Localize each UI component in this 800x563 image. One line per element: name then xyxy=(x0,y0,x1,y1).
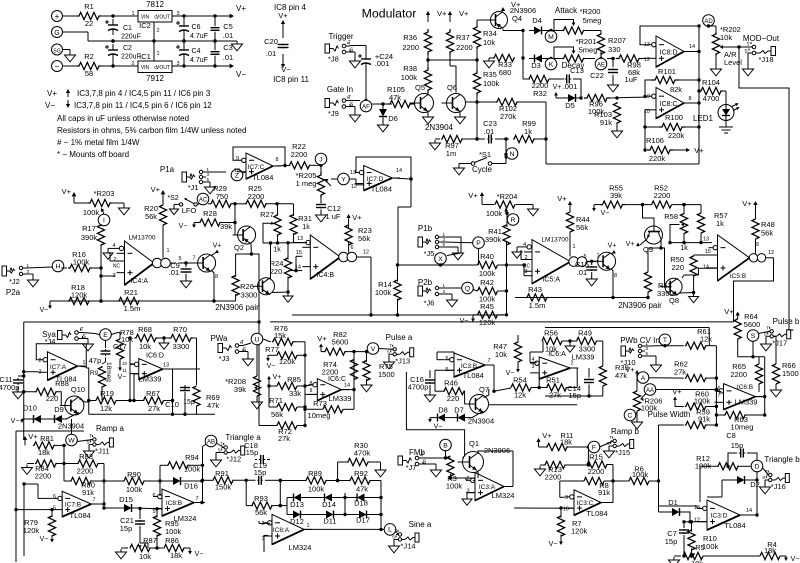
wire R13 R15 xyxy=(566,464,589,466)
svg-text:1k: 1k xyxy=(680,245,688,252)
wire AF to D6 xyxy=(372,102,392,105)
svg-text:V: V xyxy=(371,346,376,353)
svg-text:15: 15 xyxy=(296,250,302,256)
svg-text:R43: R43 xyxy=(528,285,542,294)
svg-text:*J16: *J16 xyxy=(771,482,786,491)
wire R36 node xyxy=(426,55,478,67)
wire Q7 emitter xyxy=(470,411,484,418)
svg-text:R73: R73 xyxy=(313,399,327,408)
wire AD to R202 xyxy=(709,26,717,32)
pot-jack J5 xyxy=(418,224,446,258)
V+ R204 xyxy=(468,191,494,205)
label 2N3906 pair right xyxy=(618,301,662,310)
svg-text:2200: 2200 xyxy=(730,370,747,379)
wire Q2 emitter xyxy=(236,244,253,277)
ground C22 xyxy=(608,75,619,92)
svg-text:U: U xyxy=(255,336,260,343)
svg-text:R92: R92 xyxy=(354,469,368,478)
resistor R31 xyxy=(290,214,312,235)
resistor R66 xyxy=(772,336,798,384)
svg-text:5600: 5600 xyxy=(744,320,761,329)
resistor R17 xyxy=(81,224,105,246)
wire R39 bottom xyxy=(545,386,603,396)
resistor R92 xyxy=(349,469,381,529)
resistor R96 xyxy=(584,94,610,116)
pot R5 xyxy=(683,543,705,563)
wire R88 to Q10 xyxy=(57,392,65,406)
svg-text:3300: 3300 xyxy=(241,291,258,300)
svg-text:* − Mounts off board: * − Mounts off board xyxy=(57,150,129,159)
resistor R51 xyxy=(546,376,566,400)
resistor R13 xyxy=(545,461,566,481)
resistor R68 xyxy=(135,325,158,351)
svg-text:390k: 390k xyxy=(485,235,502,244)
resistor R54 xyxy=(494,376,531,400)
svg-text:IC1: IC1 xyxy=(139,52,151,61)
svg-text:18k: 18k xyxy=(560,438,572,447)
svg-text:D18: D18 xyxy=(354,499,368,508)
svg-text:R71: R71 xyxy=(269,396,283,405)
resistor R4 xyxy=(760,540,780,560)
svg-text:1: 1 xyxy=(82,360,85,366)
svg-text:R38: R38 xyxy=(403,64,417,73)
wire R53 rail xyxy=(647,292,649,298)
svg-text:*J7: *J7 xyxy=(406,463,417,472)
svg-text:*R204: *R204 xyxy=(497,192,518,201)
svg-text:18k: 18k xyxy=(38,448,50,457)
V+ R203 xyxy=(62,187,89,203)
jack J8 xyxy=(325,41,354,64)
wire R59 right xyxy=(707,423,718,426)
label IC8 pin 11 xyxy=(273,75,309,84)
svg-text:R93: R93 xyxy=(254,494,268,503)
resistor R72 xyxy=(259,422,297,443)
svg-text:V−: V− xyxy=(11,418,20,425)
svg-text:12: 12 xyxy=(694,518,700,524)
ground J2 xyxy=(26,274,39,287)
svg-text:R86: R86 xyxy=(165,536,179,545)
svg-text:V−: V− xyxy=(195,551,204,558)
svg-text:V−: V− xyxy=(118,374,127,381)
wire IC8B out xyxy=(194,501,205,504)
resistor R30 xyxy=(347,441,370,466)
svg-text:R2: R2 xyxy=(84,52,94,61)
diode D10 xyxy=(23,404,49,424)
wire border left lower xyxy=(16,431,84,562)
transistor Q2 xyxy=(233,226,256,252)
svg-text:IC3:C: IC3:C xyxy=(577,500,594,507)
svg-text:2200: 2200 xyxy=(588,467,605,476)
V+ R60 xyxy=(672,387,683,407)
svg-text:IC8:A: IC8:A xyxy=(273,527,290,534)
svg-text:10: 10 xyxy=(122,361,128,366)
ground R13 xyxy=(535,465,546,476)
resistor R26 xyxy=(232,276,257,300)
wire R85 right xyxy=(297,385,305,387)
resistor R60 xyxy=(685,390,711,411)
diode D8 xyxy=(432,406,450,422)
svg-text:V−: V− xyxy=(281,65,291,74)
node W xyxy=(66,419,78,446)
node F xyxy=(588,441,600,453)
V- R86 xyxy=(185,548,204,558)
svg-text:R81: R81 xyxy=(40,434,54,443)
node A xyxy=(637,372,649,384)
ground J4 xyxy=(83,339,94,351)
svg-text:.01: .01 xyxy=(266,49,276,58)
diode D3 xyxy=(529,55,547,71)
svg-text:D6: D6 xyxy=(388,114,398,123)
op-amp IC3:A xyxy=(466,473,514,501)
ground J12 xyxy=(211,453,222,467)
resistor R102 xyxy=(496,98,518,121)
svg-text:56k: 56k xyxy=(761,229,773,238)
svg-text:9: 9 xyxy=(310,388,313,394)
ground R66 xyxy=(771,384,782,397)
svg-text:1500: 1500 xyxy=(782,369,799,378)
svg-text:4.7uF: 4.7uF xyxy=(190,33,208,40)
svg-text:R34: R34 xyxy=(483,29,497,38)
svg-text:*S2: *S2 xyxy=(167,195,178,202)
wire IC5A out xyxy=(583,254,599,262)
resistor R7 xyxy=(557,508,587,541)
ground R56 xyxy=(562,339,577,352)
svg-text:12: 12 xyxy=(351,184,357,190)
wire rail414 xyxy=(89,413,215,416)
jack J14 xyxy=(392,529,419,551)
svg-text:V+: V+ xyxy=(542,431,552,440)
svg-text:AA: AA xyxy=(646,388,654,394)
svg-text:39k: 39k xyxy=(220,222,232,231)
wire IC4A pin2 xyxy=(110,252,125,261)
connector + input xyxy=(52,11,78,22)
svg-text:T: T xyxy=(395,529,398,534)
svg-text:R31: R31 xyxy=(298,214,312,223)
svg-text:C13: C13 xyxy=(570,66,584,75)
svg-text:R91: R91 xyxy=(215,469,229,478)
capacitor C2 xyxy=(105,44,141,61)
svg-text:100k: 100k xyxy=(483,79,500,88)
node Y xyxy=(338,173,350,185)
ground J7 xyxy=(423,464,442,477)
svg-text:V+: V+ xyxy=(317,334,327,343)
wire R81 to W xyxy=(55,444,66,447)
ground C9 xyxy=(181,274,192,288)
svg-text:IC3,7,8 pin 11 / IC4,5 pin 6 /: IC3,7,8 pin 11 / IC4,5 pin 6 / IC6 pin 1… xyxy=(74,101,212,110)
svg-text:P: P xyxy=(476,240,481,247)
svg-text:IC8:C: IC8:C xyxy=(660,101,678,108)
svg-text:W: W xyxy=(68,437,75,444)
ground C node xyxy=(632,413,643,429)
capacitor C11 xyxy=(0,374,25,392)
svg-text:IC7:C: IC7:C xyxy=(248,164,265,171)
svg-text:VOUT: VOUT xyxy=(156,65,170,71)
svg-text:*J4: *J4 xyxy=(45,337,56,346)
label PWb CV In xyxy=(620,336,660,345)
svg-text:R21: R21 xyxy=(124,288,138,297)
wire Q9 to Q8 xyxy=(659,246,664,286)
V- R77 xyxy=(266,355,277,370)
resistor R97 xyxy=(441,135,463,158)
svg-text:S: S xyxy=(218,448,221,453)
svg-text:15p: 15p xyxy=(254,468,267,477)
resistor R105 xyxy=(387,85,412,108)
svg-text:15p: 15p xyxy=(665,537,678,546)
label Decay xyxy=(562,61,585,70)
wire R27 R31 bottoms xyxy=(278,233,294,243)
svg-text:R27: R27 xyxy=(260,210,274,219)
svg-text:120k: 120k xyxy=(279,357,296,366)
svg-text:100k: 100k xyxy=(308,485,325,494)
svg-text:IC6:B: IC6:B xyxy=(737,384,753,391)
resistor R35 xyxy=(473,70,499,95)
wire J1 to Z xyxy=(206,171,226,173)
svg-text:Modulator: Modulator xyxy=(362,7,417,21)
wire Q8 emitter xyxy=(680,291,696,294)
wire R44 pin1 xyxy=(570,232,576,257)
svg-text:IC8 pin 11: IC8 pin 11 xyxy=(273,75,309,84)
svg-text:9: 9 xyxy=(236,156,239,162)
wire IC6D out xyxy=(163,369,200,402)
wire R55 R52 xyxy=(625,203,652,206)
wire R98 to IC8D xyxy=(642,58,647,60)
jack J11 xyxy=(77,434,113,456)
resistor R79 xyxy=(23,510,56,536)
svg-text:3: 3 xyxy=(532,364,535,370)
title Modulator xyxy=(362,7,417,21)
wire diode verticals xyxy=(280,493,381,516)
svg-text:R19: R19 xyxy=(100,389,114,398)
svg-text:S: S xyxy=(86,440,89,445)
ground LED1 xyxy=(719,120,733,133)
svg-text:IC3:D: IC3:D xyxy=(711,513,728,520)
svg-text:K: K xyxy=(549,61,554,68)
svg-text:D13: D13 xyxy=(290,500,304,509)
svg-text:82k: 82k xyxy=(670,85,682,94)
svg-text:22: 22 xyxy=(85,19,93,28)
jack J16 xyxy=(762,468,789,491)
svg-text:2N3906 pair: 2N3906 pair xyxy=(618,301,662,310)
capacitor C1 xyxy=(105,19,141,43)
V- R79 xyxy=(40,535,54,543)
pot R202 wiper xyxy=(720,45,729,49)
wire R102 right xyxy=(518,102,546,139)
svg-text:100k: 100k xyxy=(632,470,649,479)
svg-text:VOUT: VOUT xyxy=(156,14,170,20)
svg-text:Q5: Q5 xyxy=(415,83,425,92)
svg-text:A: A xyxy=(641,375,646,382)
svg-text:27k: 27k xyxy=(674,368,686,377)
resistor R14 xyxy=(375,265,401,317)
svg-text:V+: V+ xyxy=(625,365,635,374)
resistor R103 xyxy=(594,102,621,127)
wire C14 top xyxy=(588,367,590,369)
wire R84 R83 xyxy=(57,463,78,465)
ground J3 xyxy=(243,352,254,366)
resistor R78 xyxy=(111,328,134,359)
svg-text:1m: 1m xyxy=(446,149,456,158)
wire R67 right xyxy=(164,400,173,402)
wire border mid xyxy=(545,328,709,346)
svg-text:*R203: *R203 xyxy=(94,189,115,198)
transistor pair right xyxy=(593,243,617,271)
wire rail297 xyxy=(515,296,650,299)
resistor R11 xyxy=(546,431,574,451)
resistor R73 xyxy=(303,399,354,420)
svg-text:2200: 2200 xyxy=(35,472,52,481)
svg-text:47k: 47k xyxy=(389,93,401,102)
svg-text:18k: 18k xyxy=(170,551,182,560)
svg-text:V+: V+ xyxy=(62,187,72,196)
label FMb xyxy=(409,448,426,457)
capacitor C23 xyxy=(483,119,497,144)
wire Q1 emitter xyxy=(477,471,479,479)
capacitor C15 xyxy=(575,260,597,277)
wire IC6D inputs xyxy=(130,364,139,402)
V- arrow C20 xyxy=(281,54,291,74)
svg-text:12: 12 xyxy=(644,57,650,63)
wire pin13 row xyxy=(668,237,712,245)
svg-text:D12: D12 xyxy=(290,517,304,526)
svg-text:V+: V+ xyxy=(468,191,478,200)
svg-text:5600: 5600 xyxy=(332,338,349,347)
label 2N3904 xyxy=(425,123,454,132)
diode D12 xyxy=(287,511,321,527)
wire R35 down xyxy=(475,95,478,141)
svg-text:V+: V+ xyxy=(352,213,362,222)
svg-text:1k: 1k xyxy=(716,219,724,228)
wire IC2 gnd xyxy=(152,22,155,61)
svg-text:10k: 10k xyxy=(483,38,495,47)
wire F down xyxy=(587,447,590,467)
wire IC7A out xyxy=(78,366,91,414)
pot R200 xyxy=(563,7,602,34)
wire y265 to IC5A xyxy=(507,263,533,275)
svg-text:LM324: LM324 xyxy=(492,491,515,500)
wire Q1 collector xyxy=(478,451,513,454)
svg-text:56k: 56k xyxy=(576,223,588,232)
ground R204 xyxy=(516,205,539,216)
wire Q7 collector long xyxy=(489,404,577,406)
svg-text:D3: D3 xyxy=(531,61,541,70)
wire Q3 emitter xyxy=(273,290,290,293)
svg-text:C2: C2 xyxy=(123,45,132,52)
V+ R11 xyxy=(536,431,552,447)
svg-text:IC4:A: IC4:A xyxy=(130,278,148,285)
wire wiper to jack xyxy=(728,45,752,48)
wire R38 to Q5 collector xyxy=(427,93,429,95)
pot R201 xyxy=(563,37,598,62)
svg-text:V+: V+ xyxy=(626,241,635,248)
svg-text:V+: V+ xyxy=(278,11,288,20)
svg-text:Attack: Attack xyxy=(555,6,578,15)
wire R26 to rail xyxy=(235,294,237,301)
svg-text:R68: R68 xyxy=(138,325,152,334)
pot R200 wiper xyxy=(554,20,575,32)
resistor R8 xyxy=(560,477,615,497)
svg-text:120k: 120k xyxy=(479,318,496,327)
svg-text:*J14: *J14 xyxy=(400,542,415,551)
V- R78 xyxy=(118,359,127,381)
resistor R55 xyxy=(600,184,625,209)
capacitor C18 xyxy=(244,441,270,464)
diode D13 xyxy=(287,494,319,510)
svg-text:IC8:B: IC8:B xyxy=(166,500,182,507)
V+ R48 xyxy=(742,199,757,219)
wire A to pot xyxy=(636,378,638,392)
transistor Q8 xyxy=(660,278,682,305)
V+ R64 xyxy=(724,307,740,319)
resistor R98 xyxy=(616,55,642,77)
ground R33 xyxy=(484,58,495,68)
svg-text:Q4: Q4 xyxy=(512,14,522,23)
svg-text:47k: 47k xyxy=(356,485,368,494)
wire pair collector xyxy=(211,270,218,301)
svg-text:IC5:B: IC5:B xyxy=(730,273,746,280)
svg-text:IC2: IC2 xyxy=(139,21,151,30)
svg-text:56k: 56k xyxy=(358,234,370,243)
wire IC8C out xyxy=(684,101,701,104)
svg-text:G: G xyxy=(154,65,158,70)
node S xyxy=(747,330,759,359)
resistor R67 xyxy=(144,389,164,413)
svg-text:V+: V+ xyxy=(557,194,567,203)
node H xyxy=(52,260,64,272)
capacitor C10 xyxy=(165,387,195,410)
svg-text:2: 2 xyxy=(156,28,159,34)
svg-text:13: 13 xyxy=(297,236,303,242)
wire R9 to R19 xyxy=(101,388,103,401)
wire pin2 row xyxy=(450,477,475,479)
wire IC3D minus xyxy=(697,506,703,508)
wire R105 to Q5 xyxy=(412,103,415,105)
svg-text:Ramp b: Ramp b xyxy=(611,427,640,436)
wire IC3A out xyxy=(504,451,513,487)
wire R24 xyxy=(287,243,289,292)
svg-text:220: 220 xyxy=(447,394,460,403)
svg-text:Pulse a: Pulse a xyxy=(386,333,413,342)
svg-text:G: G xyxy=(154,14,158,19)
ground Q8 xyxy=(689,293,699,303)
svg-text:V−: V− xyxy=(549,541,558,548)
node M xyxy=(545,31,557,43)
transistor Q5 xyxy=(410,83,434,113)
svg-text:27k: 27k xyxy=(148,404,160,413)
svg-text:R100: R100 xyxy=(665,113,683,122)
resistor R59 xyxy=(659,408,711,507)
wire R97 to C23 xyxy=(463,137,485,140)
op-amp IC5:B xyxy=(703,235,758,281)
svg-text:7912: 7912 xyxy=(146,74,164,83)
ota IC4:A xyxy=(112,235,176,286)
diode D1 xyxy=(659,498,686,516)
op-amp IC8:B xyxy=(152,489,202,523)
svg-text:D11: D11 xyxy=(323,517,336,526)
V- R55 xyxy=(592,205,609,217)
svg-text:TL084: TL084 xyxy=(371,185,392,194)
wire vout top rail xyxy=(172,14,230,17)
ota IC5B circles xyxy=(749,254,765,262)
resistor R77 xyxy=(265,345,297,366)
svg-text:Q8: Q8 xyxy=(669,296,679,305)
wire R11 to F xyxy=(568,445,590,448)
svg-text:1k: 1k xyxy=(273,247,281,254)
svg-text:Sine a: Sine a xyxy=(409,520,432,529)
wire R51 right xyxy=(566,368,578,388)
wire Y wiper xyxy=(331,179,364,185)
capacitor C17 xyxy=(89,340,127,365)
label 2N3904 Q7 xyxy=(468,417,494,426)
